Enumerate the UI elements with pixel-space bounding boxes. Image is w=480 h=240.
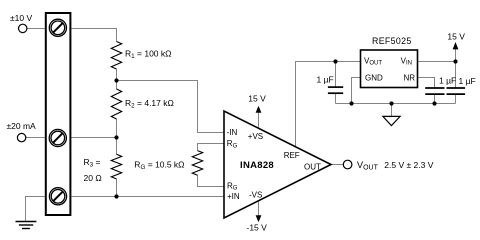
- svg-text:±20 mA: ±20 mA: [7, 121, 37, 131]
- svg-text:1 µF: 1 µF: [459, 76, 476, 86]
- svg-text:VOUT: VOUT: [357, 160, 379, 172]
- svg-text:-15 V: -15 V: [247, 223, 268, 233]
- svg-text:INA828: INA828: [240, 160, 274, 171]
- svg-text:1 µF: 1 µF: [317, 75, 334, 85]
- svg-text:OUT: OUT: [304, 162, 321, 171]
- svg-text:R1 = 100 kΩ: R1 = 100 kΩ: [125, 49, 172, 61]
- svg-text:15 V: 15 V: [447, 32, 465, 42]
- svg-text:15 V: 15 V: [248, 94, 266, 104]
- svg-text:-IN: -IN: [227, 128, 238, 137]
- svg-text:+IN: +IN: [227, 192, 240, 201]
- svg-text:±10 V: ±10 V: [10, 13, 32, 23]
- svg-text:20 Ω: 20 Ω: [84, 173, 102, 183]
- svg-text:RG = 10.5 kΩ: RG = 10.5 kΩ: [134, 160, 184, 172]
- svg-text:GND: GND: [365, 74, 383, 83]
- svg-text:1 µF: 1 µF: [439, 76, 456, 86]
- svg-text:REF5025: REF5025: [372, 36, 412, 46]
- svg-text:REF: REF: [284, 151, 300, 160]
- svg-text:+VS: +VS: [248, 132, 263, 141]
- svg-text:NR: NR: [404, 74, 416, 83]
- svg-text:2.5 V ± 2.3 V: 2.5 V ± 2.3 V: [384, 160, 433, 170]
- svg-text:R2 = 4.17 kΩ: R2 = 4.17 kΩ: [125, 98, 174, 110]
- svg-text:-VS: -VS: [249, 190, 262, 199]
- svg-text:R3 =: R3 =: [84, 157, 101, 169]
